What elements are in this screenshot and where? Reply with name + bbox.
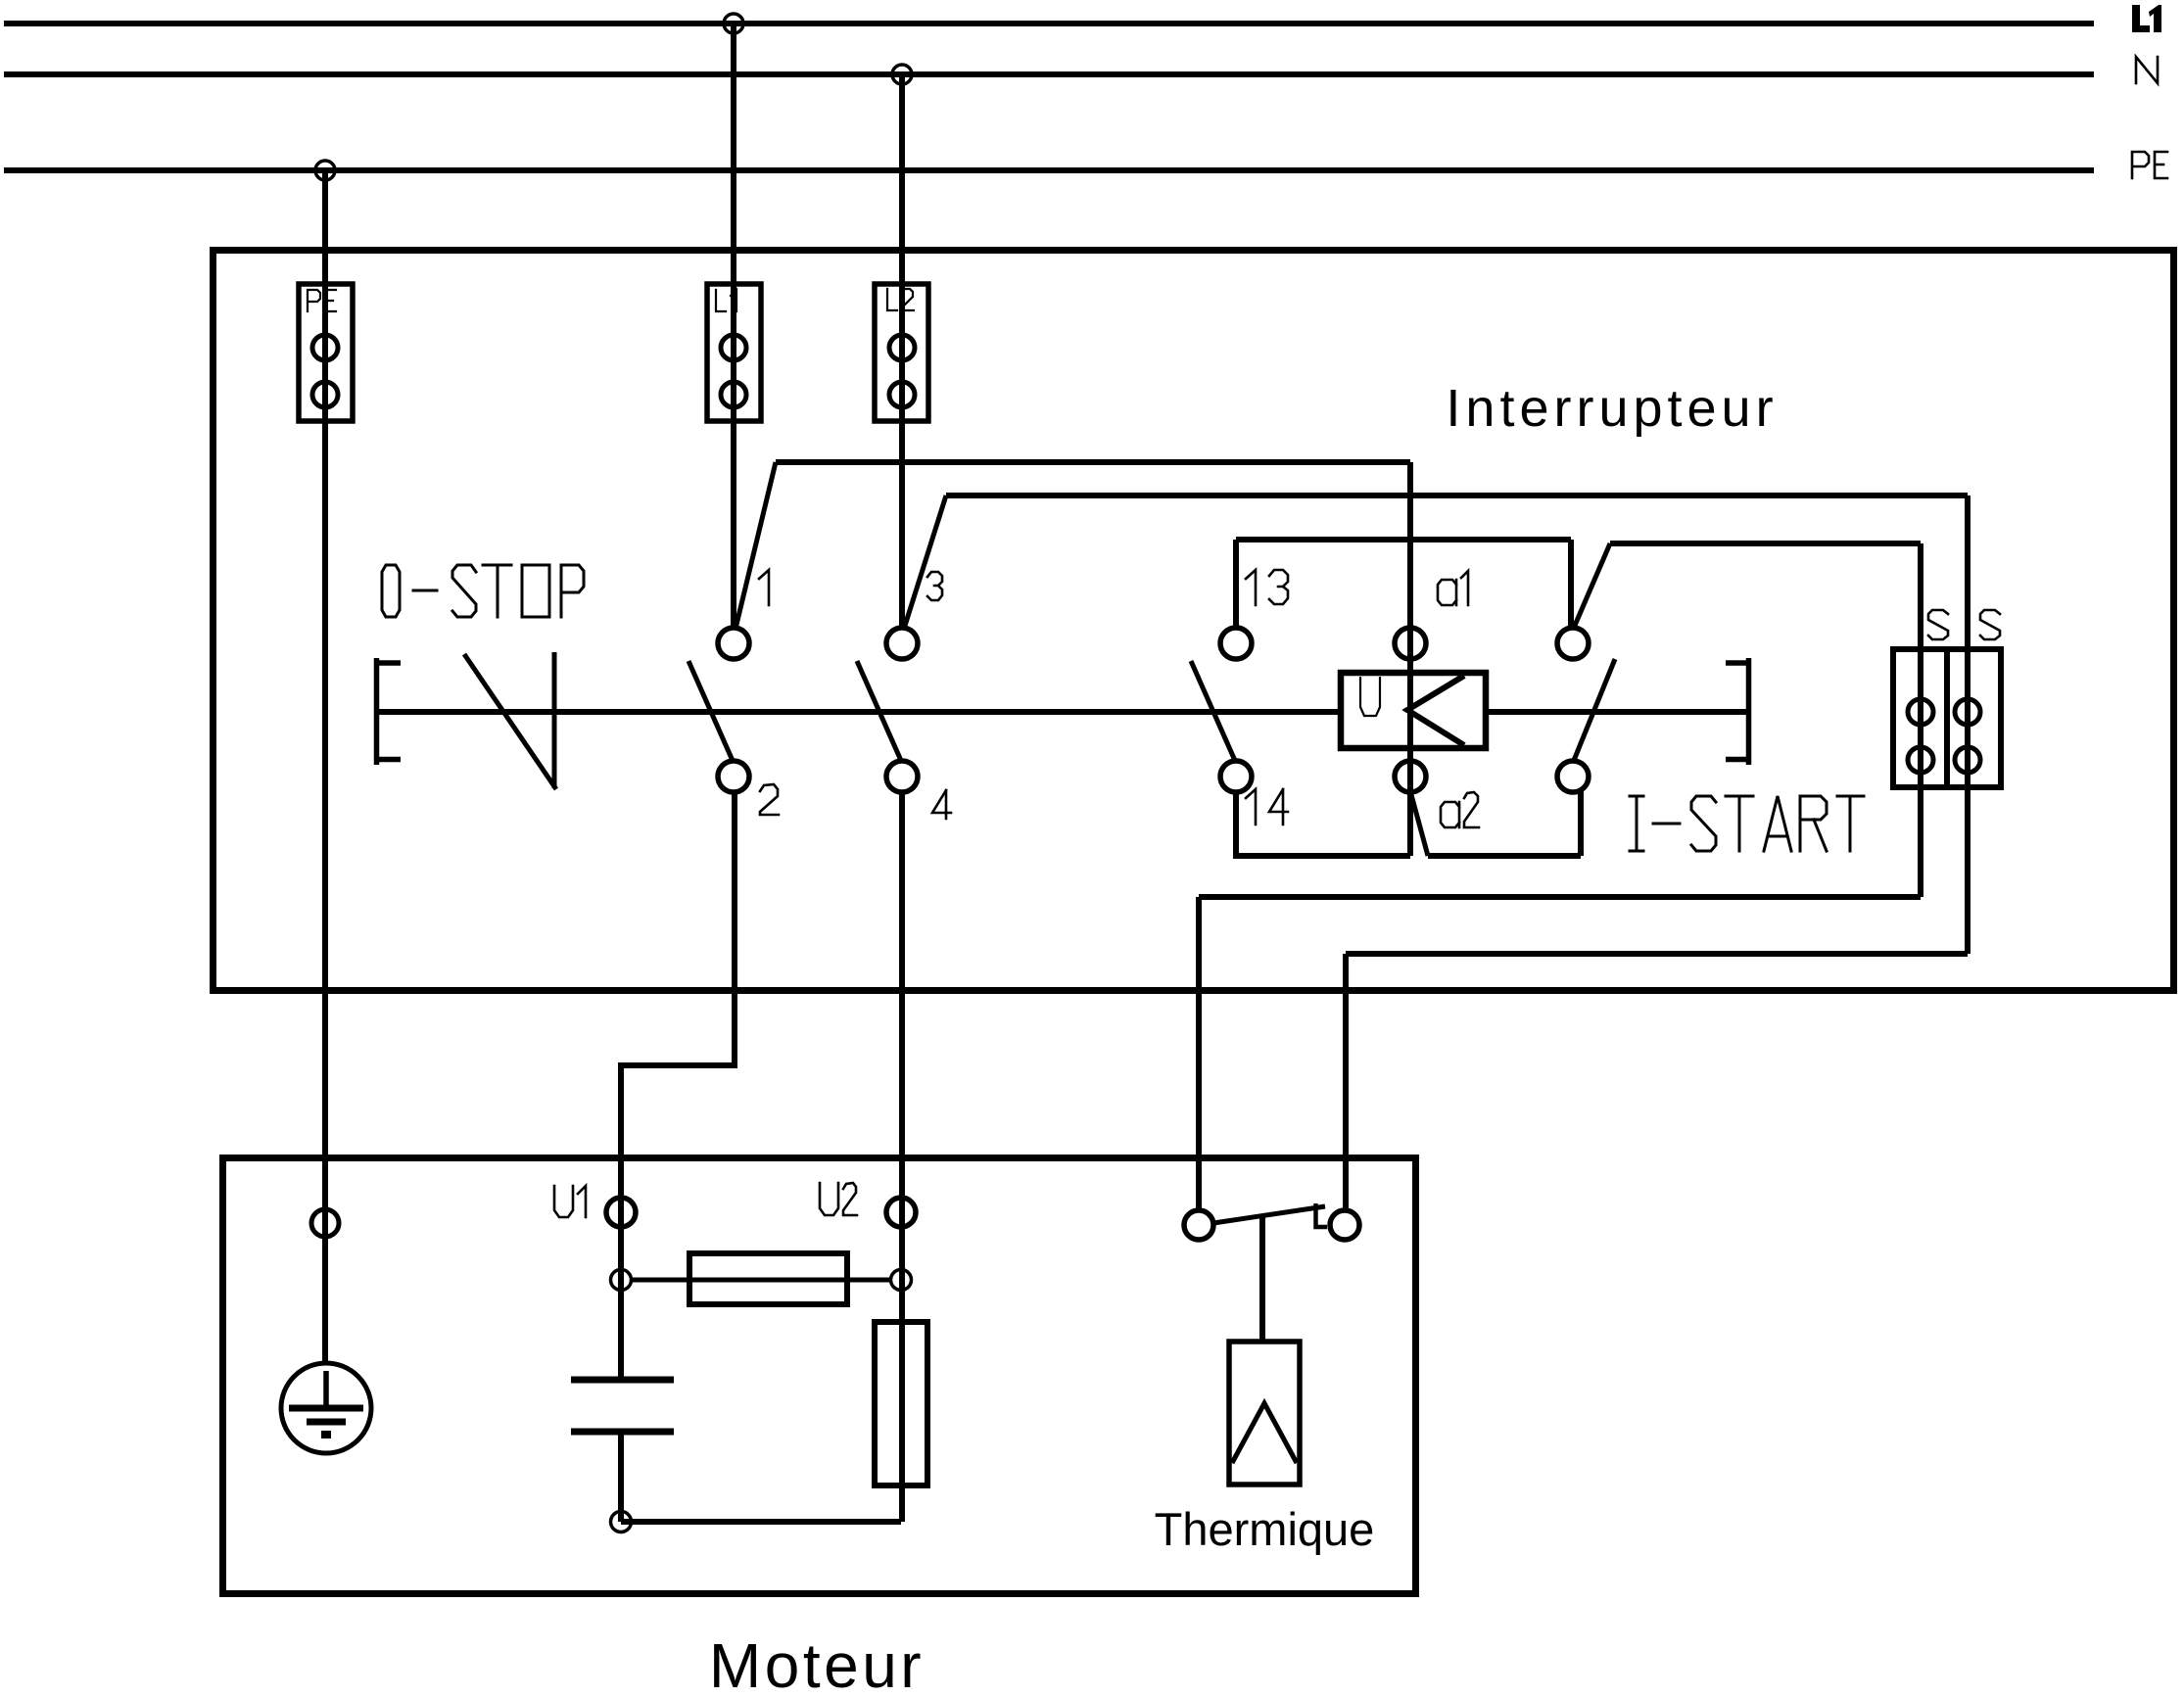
svg-text:Moteur: Moteur (709, 1630, 925, 1697)
svg-text:Interrupteur: Interrupteur (1446, 379, 1778, 438)
svg-text:Thermique: Thermique (1155, 1503, 1375, 1555)
